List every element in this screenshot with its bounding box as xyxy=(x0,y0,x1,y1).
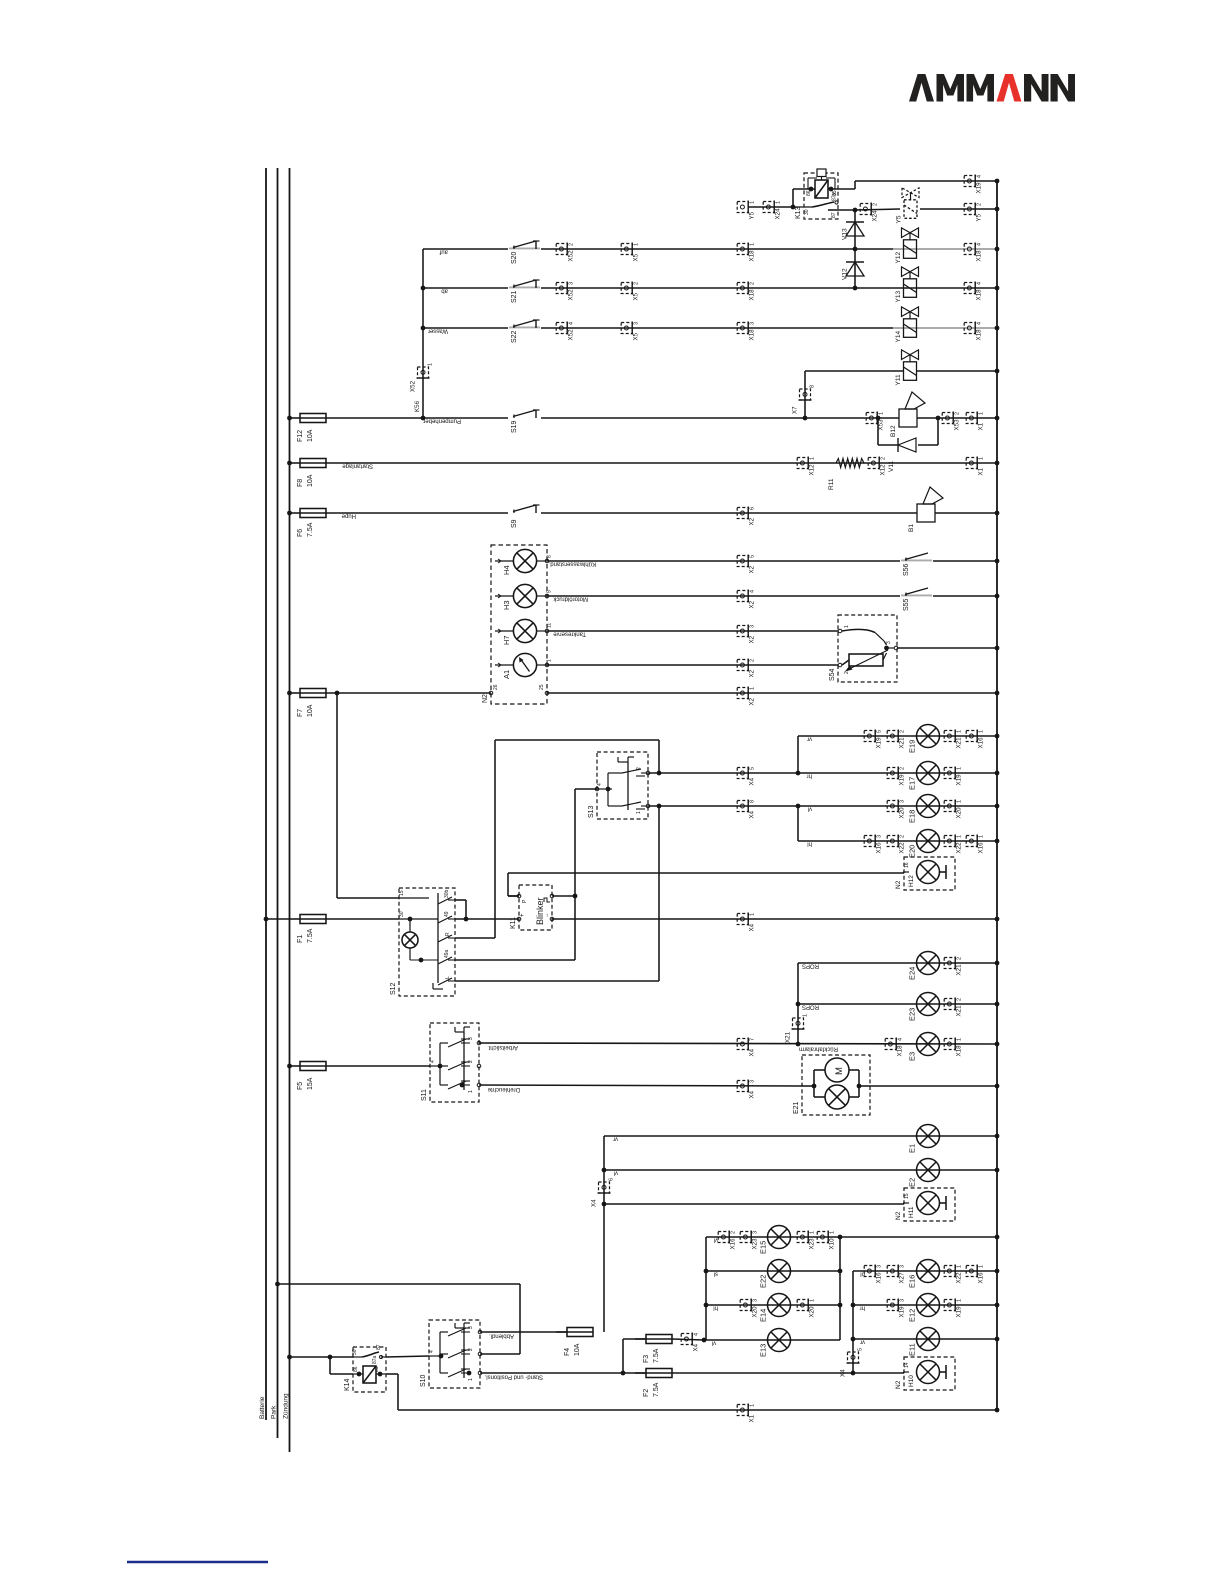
wire row F6 Hupe xyxy=(326,513,997,519)
svg-text:2: 2 xyxy=(900,730,906,733)
svg-text:−: − xyxy=(545,913,551,917)
svg-text:2: 2 xyxy=(881,457,887,460)
connector X4 pin5 riser2 xyxy=(840,1348,864,1377)
svg-text:1: 1 xyxy=(750,913,756,916)
svg-text:X19: X19 xyxy=(956,774,963,786)
svg-text:Pumpenheber: Pumpenheber xyxy=(423,418,461,424)
svg-text:S13: S13 xyxy=(588,805,595,818)
svg-text:X4: X4 xyxy=(749,810,756,818)
svg-text:E16: E16 xyxy=(908,1275,917,1288)
valve Y11 xyxy=(895,350,919,386)
wire row F7 to N2 xyxy=(326,691,491,696)
svg-text:X5: X5 xyxy=(633,292,640,300)
svg-text:3: 3 xyxy=(569,282,575,285)
wire E15 row xyxy=(706,1235,997,1340)
fuse F4 xyxy=(556,1328,593,1357)
node bus E2 xyxy=(995,1168,1000,1173)
svg-text:E11: E11 xyxy=(908,1343,917,1356)
node V13 row xyxy=(853,247,858,252)
svg-text:2: 2 xyxy=(750,659,756,662)
svg-text:X19: X19 xyxy=(899,1306,906,1318)
svg-text:Y5: Y5 xyxy=(976,213,983,221)
svg-text:X18: X18 xyxy=(976,250,983,262)
connector Y5 pin2 xyxy=(964,203,982,222)
svg-text:Y5: Y5 xyxy=(749,211,756,219)
svg-text:1: 1 xyxy=(750,243,756,246)
connector X19 pin4 xyxy=(964,175,982,194)
connector X19 pin1 E17 xyxy=(944,767,962,786)
svg-text:X5: X5 xyxy=(633,332,640,340)
svg-text:3: 3 xyxy=(750,322,756,325)
wire E16 row xyxy=(853,1271,997,1374)
lamp E22 xyxy=(759,1260,791,1289)
svg-text:V13: V13 xyxy=(842,228,849,240)
svg-text:Y11: Y11 xyxy=(895,374,902,385)
wire E18 row xyxy=(648,804,997,841)
node X7 riser F12 xyxy=(803,416,808,421)
connector X12 pin2 xyxy=(868,457,886,476)
svg-text:X1: X1 xyxy=(749,1414,756,1422)
switch S9 xyxy=(508,505,541,528)
connector X19 pin5 xyxy=(864,730,882,749)
svg-text:vl: vl xyxy=(712,1340,716,1346)
fuse F1 xyxy=(264,915,326,944)
svg-text:14: 14 xyxy=(904,1362,910,1368)
wire E19 row xyxy=(798,736,997,774)
switch S19 xyxy=(508,410,541,433)
connector X2 pin3 xyxy=(737,625,755,644)
svg-text:86: 86 xyxy=(806,190,812,196)
wire S13 common link xyxy=(573,789,597,960)
node bus F8 xyxy=(995,461,1000,466)
svg-text:2: 2 xyxy=(900,767,906,770)
svg-text:A1: A1 xyxy=(502,670,511,679)
svg-text:87: 87 xyxy=(831,212,837,218)
connector X16 pin1 E19 xyxy=(966,730,984,749)
svg-text:7: 7 xyxy=(750,1038,756,1041)
bus right return xyxy=(996,181,998,1410)
svg-text:15: 15 xyxy=(399,890,405,896)
svg-text:3: 3 xyxy=(877,1265,883,1268)
label K56 xyxy=(414,400,421,412)
svg-text:1: 1 xyxy=(468,1090,474,1093)
wire K11 minus to bus xyxy=(552,918,997,920)
svg-text:3: 3 xyxy=(750,625,756,628)
lamp E24 xyxy=(908,952,940,981)
svg-text:S10: S10 xyxy=(420,1374,427,1387)
svg-text:X4: X4 xyxy=(749,1048,756,1056)
lamp E1 xyxy=(908,1125,940,1154)
svg-text:E14: E14 xyxy=(759,1309,768,1322)
connector X21 pin2 E23 xyxy=(944,998,962,1017)
node bus bottom xyxy=(995,1408,1000,1413)
connector X21 pin2 E19 xyxy=(887,730,905,749)
lamp E19 xyxy=(908,725,940,754)
svg-text:X4: X4 xyxy=(749,777,756,785)
svg-text:hr: hr xyxy=(860,1305,865,1311)
svg-text:1: 1 xyxy=(636,811,642,814)
svg-text:X18: X18 xyxy=(749,289,756,301)
svg-text:10A: 10A xyxy=(307,429,314,442)
svg-text:N2: N2 xyxy=(895,880,902,889)
svg-text:Kühlwasserstand.: Kühlwasserstand. xyxy=(548,561,596,567)
connector X52 pin1 on riser xyxy=(410,363,434,392)
diode V13 xyxy=(842,222,865,240)
svg-text:X2: X2 xyxy=(749,517,756,525)
svg-text:4: 4 xyxy=(977,175,983,178)
svg-text:X20: X20 xyxy=(809,1306,816,1318)
svg-text:X22: X22 xyxy=(899,842,906,854)
wire E21 to bus xyxy=(870,1084,999,1089)
svg-text:X21: X21 xyxy=(956,737,963,749)
svg-text:vr: vr xyxy=(807,736,812,742)
lamp E14 xyxy=(759,1294,791,1323)
svg-text:M: M xyxy=(834,1067,845,1075)
svg-text:4: 4 xyxy=(977,282,983,285)
svg-text:4: 4 xyxy=(430,1060,436,1063)
svg-text:S55: S55 xyxy=(903,598,910,611)
svg-text:4: 4 xyxy=(977,322,983,325)
node bus S55 xyxy=(995,594,1000,599)
svg-text:K11: K11 xyxy=(510,917,517,929)
connector X22 pin2 E20 xyxy=(887,835,905,854)
svg-text:vl: vl xyxy=(614,1170,618,1176)
connector X1 pin1 row F12 xyxy=(966,412,984,431)
svg-text:Y5: Y5 xyxy=(896,215,903,223)
wire K13-87 to Y5 xyxy=(838,208,900,213)
svg-text:30b: 30b xyxy=(444,889,450,898)
svg-text:25: 25 xyxy=(539,684,545,690)
svg-text:E3: E3 xyxy=(908,1052,917,1061)
svg-text:X16: X16 xyxy=(978,842,985,854)
svg-text:3: 3 xyxy=(750,1080,756,1083)
svg-text:S12: S12 xyxy=(390,982,397,995)
svg-text:2: 2 xyxy=(873,203,879,206)
svg-text:4: 4 xyxy=(429,1350,435,1353)
wire E22 row xyxy=(704,1269,843,1277)
svg-text:E18: E18 xyxy=(908,810,917,823)
svg-text:E21: E21 xyxy=(793,1101,800,1114)
wire E1 row xyxy=(604,1136,997,1333)
svg-text:R11: R11 xyxy=(828,478,835,490)
svg-text:F1: F1 xyxy=(297,935,304,943)
wire F2 to H10 xyxy=(672,1371,904,1376)
svg-text:1: 1 xyxy=(957,1038,963,1041)
svg-text:vl: vl xyxy=(714,1237,718,1243)
lamp E16 xyxy=(908,1260,940,1289)
node bus F6 xyxy=(995,511,1000,516)
svg-text:49: 49 xyxy=(444,911,450,917)
svg-text:X16: X16 xyxy=(876,1272,883,1284)
svg-text:X22: X22 xyxy=(956,842,963,854)
connector X24 pin1 xyxy=(763,201,781,220)
svg-text:1: 1 xyxy=(979,835,985,838)
wire S10 pin1 row xyxy=(480,1371,646,1380)
svg-text:Park: Park xyxy=(271,1405,278,1419)
node bus E15 xyxy=(995,1235,1000,1240)
svg-text:Zündung: Zündung xyxy=(283,1393,290,1419)
connector X1 pin1 row F8 xyxy=(966,457,984,476)
connector X20 pin3 E18 xyxy=(887,800,905,819)
lamp E18 xyxy=(908,795,940,824)
node bus E20 xyxy=(995,839,1000,844)
svg-text:87a: 87a xyxy=(832,192,838,201)
svg-text:2: 2 xyxy=(900,835,906,838)
flasher relay K11 xyxy=(510,885,554,930)
fuse F5 xyxy=(287,1062,326,1091)
wire K14 out to S10 xyxy=(386,1356,429,1357)
svg-text:E12: E12 xyxy=(908,1309,917,1322)
svg-text:H3: H3 xyxy=(502,600,511,610)
svg-text:1: 1 xyxy=(547,659,553,662)
svg-text:+: + xyxy=(520,913,526,917)
connector X21 pin1 E19 xyxy=(944,730,962,749)
svg-text:7.5A: 7.5A xyxy=(307,928,314,943)
svg-text:X2: X2 xyxy=(749,697,756,705)
connector X4 pin8 xyxy=(737,800,755,819)
svg-text:X12: X12 xyxy=(809,464,816,476)
svg-text:1: 1 xyxy=(830,1231,836,1234)
svg-text:E13: E13 xyxy=(759,1344,768,1357)
bus Park xyxy=(271,168,278,1438)
node bus F12 xyxy=(995,416,1000,421)
svg-text:vr: vr xyxy=(860,1339,865,1345)
svg-text:30: 30 xyxy=(399,911,405,917)
wire H7 row xyxy=(547,631,838,637)
svg-text:1: 1 xyxy=(957,835,963,838)
svg-text:X23: X23 xyxy=(752,1238,759,1250)
svg-text:5: 5 xyxy=(750,767,756,770)
wire E14 row xyxy=(704,1303,843,1311)
svg-text:3: 3 xyxy=(886,641,892,644)
connector X20 pin1 E18 xyxy=(944,800,962,819)
svg-text:V12: V12 xyxy=(842,268,849,280)
svg-text:H12: H12 xyxy=(908,875,915,887)
wire S12 L link xyxy=(455,806,659,981)
svg-text:hl: hl xyxy=(713,1305,718,1311)
wire bottom return xyxy=(398,1409,997,1411)
svg-text:hl: hl xyxy=(807,841,812,847)
wire V13 V12 chain xyxy=(854,210,856,288)
lamp E2 xyxy=(908,1159,940,1188)
svg-text:S22: S22 xyxy=(511,330,518,343)
connector X2 pin5 xyxy=(737,555,755,574)
svg-text:1: 1 xyxy=(750,1404,756,1407)
svg-text:2: 2 xyxy=(955,412,961,415)
svg-text:4: 4 xyxy=(597,783,603,786)
wire riser S20 group xyxy=(422,249,424,418)
svg-text:1: 1 xyxy=(750,687,756,690)
svg-text:Hupe: Hupe xyxy=(341,513,356,519)
connector X22 pin1 E16 xyxy=(944,1265,962,1284)
fuse F12 xyxy=(287,414,326,443)
svg-text:X16: X16 xyxy=(978,737,985,749)
svg-text:X19: X19 xyxy=(976,182,983,194)
svg-text:1: 1 xyxy=(776,201,782,204)
connector X23 pin3 E15 xyxy=(740,1231,758,1250)
svg-text:N2: N2 xyxy=(895,1380,902,1389)
svg-text:8: 8 xyxy=(547,555,553,558)
node bus N2 xyxy=(995,691,1000,696)
svg-text:X4: X4 xyxy=(749,1090,756,1098)
svg-text:5: 5 xyxy=(877,730,883,733)
wire Park to S10 xyxy=(275,1282,520,1354)
svg-text:3: 3 xyxy=(877,835,883,838)
svg-text:X52: X52 xyxy=(568,329,575,341)
svg-text:X4: X4 xyxy=(693,1343,700,1351)
svg-text:H4: H4 xyxy=(502,565,511,575)
svg-text:2: 2 xyxy=(977,203,983,206)
svg-text:11: 11 xyxy=(547,623,553,628)
svg-text:Tankreserve: Tankreserve xyxy=(553,631,586,637)
svg-text:X53: X53 xyxy=(954,419,961,431)
svg-text:E23: E23 xyxy=(908,1008,917,1021)
switch S11 xyxy=(421,1023,481,1102)
svg-text:X2: X2 xyxy=(749,635,756,643)
svg-text:4: 4 xyxy=(694,1333,700,1336)
wire E17 row xyxy=(648,771,997,779)
svg-text:X1: X1 xyxy=(978,467,985,475)
svg-text:3: 3 xyxy=(900,800,906,803)
diode V12 xyxy=(842,262,865,280)
instrument cluster N2 xyxy=(482,545,553,704)
node bus E3 xyxy=(995,1042,1000,1047)
svg-text:S21: S21 xyxy=(511,290,518,303)
node bus E11 xyxy=(995,1337,1000,1342)
svg-text:87a: 87a xyxy=(372,1355,378,1364)
svg-text:E20: E20 xyxy=(908,845,917,858)
svg-text:K14: K14 xyxy=(344,1378,351,1391)
svg-text:X2: X2 xyxy=(749,565,756,573)
svg-text:Y13: Y13 xyxy=(895,291,902,303)
svg-text:X18: X18 xyxy=(976,329,983,341)
control lamp H11 in N2 xyxy=(895,1188,955,1221)
node bus E19 xyxy=(995,734,1000,739)
wire 49 to K11 xyxy=(455,918,519,920)
wire E20 row xyxy=(798,841,997,847)
svg-text:X23: X23 xyxy=(809,1238,816,1250)
svg-text:S54: S54 xyxy=(829,668,836,681)
svg-text:N2: N2 xyxy=(482,694,489,703)
svg-text:X52: X52 xyxy=(410,380,417,392)
wire riser S12-15 xyxy=(337,693,399,898)
svg-text:S9: S9 xyxy=(511,519,518,528)
svg-text:1: 1 xyxy=(810,457,816,460)
svg-text:2: 2 xyxy=(731,1231,737,1234)
svg-text:7.5A: 7.5A xyxy=(307,522,314,537)
footer rule xyxy=(127,1561,268,1563)
svg-text:X18: X18 xyxy=(749,250,756,262)
wire H4 row xyxy=(547,561,997,567)
connector X16 pin2 E15 xyxy=(718,1231,736,1250)
light switch S10 xyxy=(420,1320,482,1388)
bus Zuendung xyxy=(283,168,290,1452)
svg-text:1: 1 xyxy=(979,412,985,415)
connector X4 pin3 xyxy=(737,1080,755,1099)
wire N2 pin25 row xyxy=(547,692,997,694)
connector X2 pin1 xyxy=(737,687,755,706)
wire E24 row xyxy=(798,963,997,1045)
node bus E16 xyxy=(995,1269,1000,1274)
beacon E21 xyxy=(793,1055,870,1115)
svg-text:X18: X18 xyxy=(976,289,983,301)
connector X20 pin1 E14 xyxy=(797,1299,815,1318)
svg-text:3: 3 xyxy=(753,1299,759,1302)
wire S10 pin3 to F4 xyxy=(480,1332,567,1339)
wire E21 row xyxy=(479,1085,802,1092)
svg-text:1: 1 xyxy=(879,412,885,415)
relay K13 xyxy=(749,169,855,219)
svg-text:X21: X21 xyxy=(899,737,906,749)
svg-text:Wasser: Wasser xyxy=(428,328,448,334)
connector X16 pin1 E20 xyxy=(966,835,984,854)
svg-text:5: 5 xyxy=(858,1348,864,1351)
node bus F1row xyxy=(995,917,1000,922)
wire row F12 xyxy=(326,418,997,424)
svg-text:1: 1 xyxy=(979,1265,985,1268)
svg-text:1: 1 xyxy=(810,1299,816,1302)
svg-text:E2: E2 xyxy=(908,1178,917,1187)
connector X16 pin3 E16 xyxy=(864,1265,882,1284)
svg-text:F3: F3 xyxy=(643,1355,650,1363)
connector X4 pin5 xyxy=(737,767,755,786)
svg-text:26: 26 xyxy=(493,684,499,690)
bus Batterie xyxy=(259,168,266,1420)
svg-text:Rückfahralarm: Rückfahralarm xyxy=(799,1046,838,1052)
svg-text:S11: S11 xyxy=(421,1089,428,1101)
svg-text:1: 1 xyxy=(428,363,434,366)
svg-text:Startanlage: Startanlage xyxy=(342,463,373,469)
svg-text:Y12: Y12 xyxy=(895,252,902,264)
switch S13 xyxy=(588,752,650,819)
node bus S56 xyxy=(995,559,1000,564)
svg-text:H10: H10 xyxy=(908,1375,915,1387)
wire S12 49a link xyxy=(455,959,575,961)
svg-text:X24: X24 xyxy=(872,210,879,222)
wire H12 row xyxy=(508,873,904,896)
svg-text:3: 3 xyxy=(634,322,640,325)
svg-text:1: 1 xyxy=(957,1265,963,1268)
wire S12 R to top xyxy=(455,937,495,939)
connector Y5 pin1 xyxy=(737,201,755,220)
svg-text:F8: F8 xyxy=(297,479,304,487)
lamp E23 xyxy=(908,993,940,1022)
resistor R11 xyxy=(828,459,864,491)
svg-text:X18: X18 xyxy=(956,1045,963,1057)
wire F5 to S11 xyxy=(326,1065,430,1067)
svg-text:ab: ab xyxy=(441,288,448,294)
svg-text:3: 3 xyxy=(900,1265,906,1268)
switch S12 xyxy=(390,888,455,996)
wire Zuendung to K14 xyxy=(287,1355,353,1374)
svg-text:Stand- und Positionsl.: Stand- und Positionsl. xyxy=(484,1374,543,1380)
svg-text:auf: auf xyxy=(439,249,448,255)
horn B12 with diode V11 xyxy=(876,392,941,472)
connector X12 pin1 xyxy=(797,457,815,476)
svg-text:X10: X10 xyxy=(829,1238,836,1250)
horn B1 xyxy=(908,487,943,532)
svg-text:X21: X21 xyxy=(956,964,963,976)
fuse F3 xyxy=(635,1335,672,1364)
svg-text:10A: 10A xyxy=(307,704,314,717)
svg-text:E24: E24 xyxy=(908,967,917,980)
row S21 ab / valve Y13 xyxy=(423,267,999,303)
connector X18 pin4 E3 xyxy=(885,1038,903,1057)
connector X2 pin6 xyxy=(737,507,755,526)
solenoid Y5 xyxy=(896,188,998,224)
node bus E24 xyxy=(995,961,1000,966)
svg-text:X5: X5 xyxy=(633,253,640,261)
